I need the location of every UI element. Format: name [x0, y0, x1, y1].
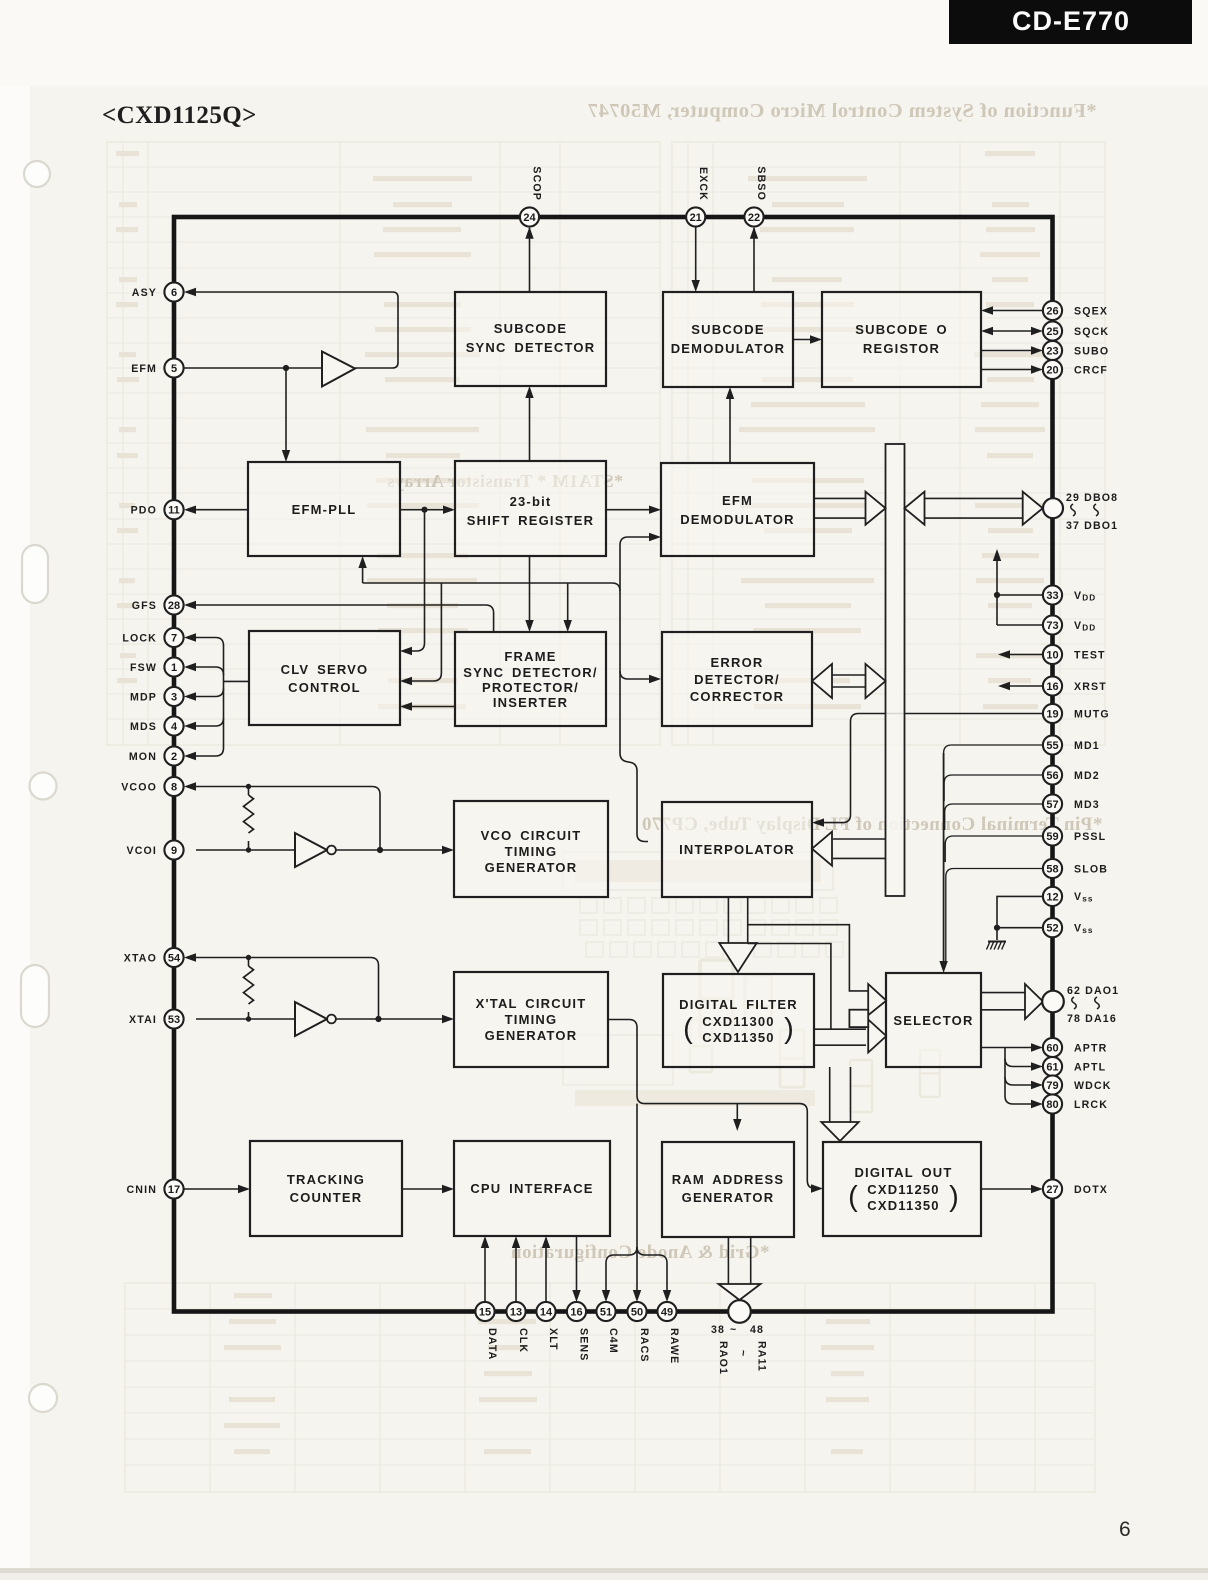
- svg-text:RAO1: RAO1: [717, 1341, 729, 1375]
- svg-text:49: 49: [661, 1306, 673, 1318]
- svg-text:55: 55: [1046, 740, 1058, 752]
- svg-text:23-bit: 23-bit: [510, 494, 552, 509]
- svg-text:ERROR: ERROR: [711, 655, 764, 670]
- svg-text:EFM-PLL: EFM-PLL: [292, 502, 357, 517]
- svg-text:CONTROL: CONTROL: [288, 680, 361, 695]
- svg-text:53: 53: [168, 1014, 180, 1026]
- svg-text:TRACKING: TRACKING: [287, 1172, 365, 1187]
- svg-text:REGISTOR: REGISTOR: [863, 341, 940, 356]
- svg-text:21: 21: [690, 212, 702, 224]
- svg-text:13: 13: [510, 1306, 522, 1318]
- svg-text:SQEX: SQEX: [1074, 305, 1108, 317]
- svg-text:15: 15: [479, 1306, 491, 1318]
- svg-text:MD2: MD2: [1074, 770, 1100, 782]
- svg-text:SLOB: SLOB: [1074, 863, 1108, 875]
- svg-text:SBSO: SBSO: [755, 166, 767, 201]
- svg-text:DIGITAL FILTER: DIGITAL FILTER: [679, 997, 798, 1012]
- svg-text:61: 61: [1046, 1061, 1058, 1073]
- svg-text:C4M: C4M: [607, 1328, 619, 1354]
- svg-text:EXCK: EXCK: [697, 167, 709, 201]
- svg-text:PDO: PDO: [131, 505, 157, 517]
- svg-text:25: 25: [1046, 326, 1058, 338]
- svg-text:SUBCODE O: SUBCODE O: [855, 322, 948, 337]
- svg-text:DIGITAL OUT: DIGITAL OUT: [854, 1165, 952, 1180]
- svg-text:48: 48: [750, 1324, 764, 1336]
- svg-text:VCOI: VCOI: [127, 845, 158, 857]
- svg-text:RAWE: RAWE: [668, 1328, 680, 1364]
- svg-text:CD-E770: CD-E770: [1012, 6, 1130, 36]
- svg-text:): ): [949, 1181, 959, 1213]
- svg-text:SUBCODE: SUBCODE: [691, 322, 764, 337]
- svg-text:INSERTER: INSERTER: [493, 695, 568, 710]
- svg-text:4: 4: [171, 721, 178, 733]
- svg-text:SCOP: SCOP: [531, 166, 543, 201]
- svg-text:79: 79: [1046, 1080, 1058, 1092]
- svg-text:PSSL: PSSL: [1074, 831, 1106, 843]
- svg-text:56: 56: [1046, 770, 1058, 782]
- svg-text:57: 57: [1046, 799, 1058, 811]
- svg-text:INTERPOLATOR: INTERPOLATOR: [679, 842, 795, 857]
- svg-text:37 DBO1: 37 DBO1: [1066, 520, 1118, 532]
- svg-text:CORRECTOR: CORRECTOR: [690, 689, 784, 704]
- svg-text:APTR: APTR: [1074, 1042, 1107, 1054]
- svg-text:X'TAL CIRCUIT: X'TAL CIRCUIT: [476, 996, 587, 1011]
- svg-text:CRCF: CRCF: [1074, 364, 1108, 376]
- svg-text:54: 54: [168, 952, 181, 964]
- svg-text:9: 9: [171, 845, 177, 857]
- svg-text:33: 33: [1046, 590, 1058, 602]
- svg-text:51: 51: [600, 1306, 612, 1318]
- svg-text:FRAME: FRAME: [504, 649, 556, 664]
- svg-text:PROTECTOR/: PROTECTOR/: [482, 680, 579, 695]
- svg-text:22: 22: [748, 212, 760, 224]
- svg-text:DATA: DATA: [486, 1328, 498, 1360]
- svg-text:MD1: MD1: [1074, 740, 1100, 752]
- svg-text:12: 12: [1046, 891, 1058, 903]
- svg-text:8: 8: [171, 781, 177, 793]
- svg-text:80: 80: [1046, 1099, 1058, 1111]
- svg-text:XLT: XLT: [547, 1328, 559, 1351]
- svg-text:GENERATOR: GENERATOR: [485, 1028, 578, 1043]
- svg-text:16: 16: [570, 1306, 582, 1318]
- svg-text:10: 10: [1046, 649, 1058, 661]
- svg-text:16: 16: [1046, 681, 1058, 693]
- svg-text:(: (: [683, 1013, 693, 1045]
- svg-text:59: 59: [1046, 831, 1058, 843]
- svg-text:<CXD1125Q>: <CXD1125Q>: [102, 102, 257, 129]
- svg-text:(: (: [848, 1181, 858, 1213]
- svg-text:TEST: TEST: [1074, 649, 1106, 661]
- svg-text:DEMODULATOR: DEMODULATOR: [680, 512, 795, 527]
- svg-text:11: 11: [168, 505, 180, 517]
- svg-text:XTAI: XTAI: [129, 1014, 157, 1026]
- svg-text:SENS: SENS: [578, 1328, 590, 1361]
- svg-text:APTL: APTL: [1074, 1061, 1106, 1073]
- svg-text:17: 17: [168, 1184, 180, 1196]
- svg-text:EFM: EFM: [722, 493, 753, 508]
- svg-text:SELECTOR: SELECTOR: [893, 1013, 973, 1028]
- svg-text:GFS: GFS: [132, 600, 157, 612]
- svg-text:*Function of System Control Mi: *Function of System Control Micro Comput…: [587, 100, 1096, 122]
- svg-text:20: 20: [1046, 364, 1058, 376]
- svg-text:LOCK: LOCK: [122, 632, 157, 644]
- svg-text:*Grid & Anode Configuration: *Grid & Anode Configuration: [511, 1242, 770, 1263]
- svg-text:SUBO: SUBO: [1074, 345, 1109, 357]
- svg-text:26: 26: [1046, 305, 1058, 317]
- svg-text:6: 6: [1119, 1518, 1131, 1541]
- svg-text:27: 27: [1046, 1184, 1058, 1196]
- svg-text:14: 14: [540, 1306, 553, 1318]
- svg-text:LRCK: LRCK: [1074, 1099, 1108, 1111]
- svg-text:78 DA16: 78 DA16: [1067, 1013, 1117, 1025]
- svg-text:CLV SERVO: CLV SERVO: [281, 662, 369, 677]
- svg-text:TIMING: TIMING: [505, 1012, 558, 1027]
- svg-text:19: 19: [1046, 708, 1058, 720]
- svg-text:FSW: FSW: [130, 662, 157, 674]
- svg-text:5: 5: [171, 363, 177, 375]
- svg-text:DOTX: DOTX: [1074, 1184, 1108, 1196]
- svg-text:73: 73: [1046, 620, 1058, 632]
- svg-text:VCO CIRCUIT: VCO CIRCUIT: [481, 828, 582, 843]
- svg-text:SYNC DETECTOR/: SYNC DETECTOR/: [463, 665, 597, 680]
- svg-text:ASY: ASY: [132, 287, 157, 299]
- svg-text:RAM ADDRESS: RAM ADDRESS: [672, 1172, 785, 1187]
- svg-text:52: 52: [1046, 923, 1058, 935]
- svg-text:XRST: XRST: [1074, 681, 1107, 693]
- svg-text:50: 50: [631, 1306, 643, 1318]
- svg-text:3: 3: [171, 691, 177, 703]
- svg-text:58: 58: [1046, 863, 1058, 875]
- svg-text:DEMODULATOR: DEMODULATOR: [671, 341, 786, 356]
- svg-text:~: ~: [730, 1324, 737, 1336]
- svg-text:CXD11350: CXD11350: [702, 1030, 774, 1045]
- svg-text:1: 1: [171, 662, 177, 674]
- svg-text:7: 7: [171, 632, 177, 644]
- svg-text:62 DAO1: 62 DAO1: [1067, 985, 1119, 997]
- svg-text:6: 6: [171, 287, 177, 299]
- svg-text:MDS: MDS: [130, 721, 157, 733]
- svg-text:29 DBO8: 29 DBO8: [1066, 492, 1118, 504]
- svg-text:MDP: MDP: [130, 691, 157, 703]
- svg-text:): ): [784, 1013, 794, 1045]
- svg-text:SQCK: SQCK: [1074, 326, 1109, 338]
- svg-text:XTAO: XTAO: [124, 952, 157, 964]
- svg-text:WDCK: WDCK: [1074, 1080, 1112, 1092]
- svg-text:CNIN: CNIN: [127, 1184, 158, 1196]
- svg-text:SHIFT REGISTER: SHIFT REGISTER: [467, 513, 594, 528]
- svg-text:~: ~: [737, 1350, 749, 1357]
- svg-text:GENERATOR: GENERATOR: [485, 860, 578, 875]
- svg-text:24: 24: [523, 212, 536, 224]
- svg-text:CXD11300: CXD11300: [702, 1014, 774, 1029]
- svg-text:CPU INTERFACE: CPU INTERFACE: [470, 1181, 593, 1196]
- svg-text:EFM: EFM: [131, 363, 157, 375]
- svg-text:TIMING: TIMING: [505, 844, 558, 859]
- svg-text:RA11: RA11: [756, 1341, 768, 1372]
- svg-text:MUTG: MUTG: [1074, 708, 1110, 720]
- svg-text:VCOO: VCOO: [121, 781, 157, 793]
- svg-text:MD3: MD3: [1074, 799, 1100, 811]
- svg-text:MON: MON: [129, 751, 157, 763]
- svg-text:COUNTER: COUNTER: [290, 1190, 363, 1205]
- svg-text:RACS: RACS: [638, 1328, 650, 1363]
- svg-text:60: 60: [1046, 1042, 1058, 1054]
- svg-text:28: 28: [168, 600, 180, 612]
- svg-text:DETECTOR/: DETECTOR/: [694, 672, 780, 687]
- svg-text:SYNC DETECTOR: SYNC DETECTOR: [466, 340, 596, 355]
- svg-text:23: 23: [1046, 345, 1058, 357]
- svg-text:2: 2: [171, 751, 177, 763]
- svg-text:GENERATOR: GENERATOR: [682, 1190, 775, 1205]
- svg-text:38: 38: [711, 1324, 725, 1336]
- svg-text:CLK: CLK: [517, 1328, 529, 1353]
- svg-text:CXD11250: CXD11250: [867, 1182, 939, 1197]
- svg-text:SUBCODE: SUBCODE: [494, 321, 567, 336]
- svg-text:CXD11350: CXD11350: [867, 1198, 939, 1213]
